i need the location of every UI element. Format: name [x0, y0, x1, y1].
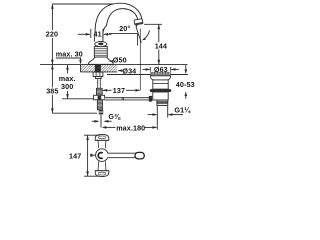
svg-text:20°: 20°: [119, 24, 130, 33]
svg-text:G1¼: G1¼: [174, 106, 191, 115]
svg-text:147: 147: [69, 151, 81, 160]
svg-text:Ø63: Ø63: [154, 65, 168, 74]
svg-text:220: 220: [46, 29, 58, 38]
svg-text:40-53: 40-53: [176, 80, 195, 89]
svg-text:max. 30: max. 30: [56, 50, 83, 59]
svg-text:Ø50: Ø50: [113, 56, 127, 65]
svg-text:300: 300: [61, 82, 73, 91]
svg-text:G⅜: G⅜: [108, 112, 121, 121]
svg-text:max.180: max.180: [116, 123, 145, 132]
svg-text:144: 144: [155, 42, 167, 51]
svg-text:385: 385: [46, 87, 58, 96]
svg-text:Ø34: Ø34: [122, 67, 136, 76]
svg-text:41: 41: [94, 30, 102, 39]
svg-text:137: 137: [113, 86, 125, 95]
